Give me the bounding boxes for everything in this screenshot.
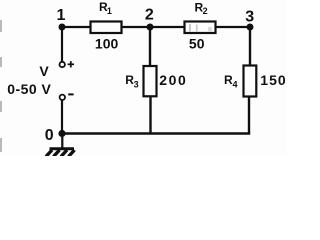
wire node0 down to ground	[61, 134, 63, 148]
resistor R4 designator	[224, 73, 238, 90]
svg-text:3: 3	[245, 9, 254, 26]
wire node1 down to + terminal	[61, 27, 63, 61]
resistor R3 designator	[125, 73, 138, 90]
svg-text:200: 200	[159, 72, 187, 88]
junction node 3	[247, 24, 254, 31]
resistor R4 body	[244, 66, 257, 97]
wire R1 to node2	[122, 26, 150, 28]
plus sign	[68, 61, 74, 67]
svg-text:0-50 V: 0-50 V	[7, 81, 51, 97]
svg-text:4: 4	[233, 80, 238, 90]
wire node2 down to R3	[149, 27, 151, 66]
wire - terminal down to node0	[61, 100, 63, 133]
resistor R1 body	[91, 22, 122, 34]
resistor R2 designator	[195, 1, 208, 17]
junction node 2	[147, 24, 154, 31]
junction node 0	[58, 130, 65, 137]
svg-text:100: 100	[95, 36, 119, 52]
svg-text:2: 2	[145, 7, 154, 24]
wire R2 to node3	[216, 26, 250, 28]
svg-text:150: 150	[260, 72, 286, 88]
minus sign	[68, 93, 73, 95]
resistor R3 body	[144, 66, 157, 96]
source + terminal	[60, 62, 65, 67]
wire node2 to R2	[150, 26, 184, 28]
ground symbol	[46, 149, 75, 157]
wire node1 to R1	[62, 26, 90, 28]
svg-text:3: 3	[134, 80, 139, 90]
bottom rail wire node0 to R4 branch	[62, 132, 250, 135]
source - terminal	[60, 95, 65, 100]
svg-text:1: 1	[57, 7, 66, 24]
svg-text:50: 50	[189, 35, 205, 51]
resistor R2 body	[185, 22, 216, 34]
svg-text:2: 2	[203, 6, 208, 16]
svg-text:V: V	[39, 63, 49, 79]
wire R3 down to bottom rail	[149, 96, 151, 134]
junction node 1	[59, 24, 66, 31]
scan smudges inside R2	[189, 24, 212, 32]
wire R4 down to bottom rail corner	[248, 97, 250, 134]
resistor R1 designator	[99, 0, 112, 16]
wire node3 down to R4	[249, 27, 251, 66]
scan smudge left edge	[0, 20, 2, 152]
svg-text:0: 0	[45, 127, 54, 144]
svg-text:1: 1	[107, 6, 112, 16]
